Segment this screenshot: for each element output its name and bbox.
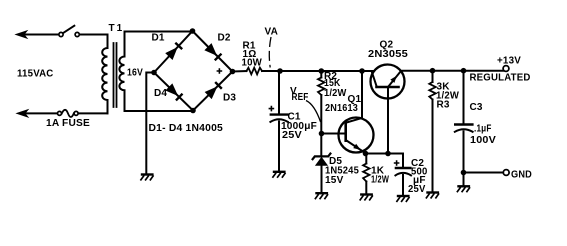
svg-text:25V: 25V: [282, 130, 302, 141]
svg-text:R3: R3: [437, 100, 450, 111]
svg-text:REF: REF: [292, 92, 309, 103]
svg-text:1/2W: 1/2W: [371, 175, 389, 186]
svg-text:2N3055: 2N3055: [368, 49, 408, 60]
svg-text:D1- D4 1N4005: D1- D4 1N4005: [149, 123, 224, 134]
svg-text:1A FUSE: 1A FUSE: [46, 118, 90, 129]
svg-text:16V: 16V: [127, 68, 143, 79]
svg-text:D1: D1: [152, 33, 165, 44]
svg-text:10W: 10W: [242, 58, 263, 69]
svg-text:100V: 100V: [470, 135, 496, 146]
svg-text:REGULATED: REGULATED: [470, 73, 531, 84]
svg-text:GND: GND: [511, 170, 532, 181]
svg-text:C3: C3: [470, 102, 483, 113]
svg-text:+13V: +13V: [497, 56, 521, 67]
svg-text:25V: 25V: [408, 184, 426, 195]
svg-text:T1: T1: [109, 23, 125, 34]
svg-text:D2: D2: [218, 33, 231, 44]
svg-text:115VAC: 115VAC: [17, 69, 54, 80]
svg-text:D4: D4: [154, 88, 167, 99]
svg-text:.1μF: .1μF: [474, 124, 492, 135]
svg-text:D3: D3: [223, 93, 236, 104]
svg-text:1/2W: 1/2W: [324, 88, 347, 99]
svg-text:2N1613: 2N1613: [325, 103, 358, 114]
svg-text:15V: 15V: [325, 175, 344, 186]
svg-text:VA: VA: [265, 27, 279, 38]
